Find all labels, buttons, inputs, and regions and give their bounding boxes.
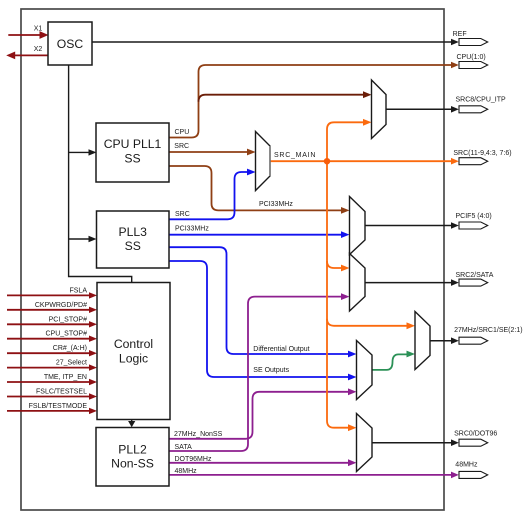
svg-text:SRC: SRC bbox=[174, 143, 189, 150]
wire SRC brown to mux U1 bbox=[169, 149, 256, 156]
block OSC bbox=[48, 22, 92, 65]
label SE Outputs bbox=[253, 367, 289, 374]
svg-text:SE Outputs: SE Outputs bbox=[253, 367, 289, 374]
label PCI33MHz blue bbox=[175, 226, 209, 233]
svg-text:TME, ITP_EN: TME, ITP_EN bbox=[44, 374, 87, 381]
wire SATA purple to mux U4 bbox=[169, 293, 350, 451]
svg-text:CPU_STOP#: CPU_STOP# bbox=[46, 331, 88, 338]
input CPU_STOP# bbox=[7, 331, 97, 342]
svg-text:CPU PLL1: CPU PLL1 bbox=[104, 137, 162, 151]
svg-text:PCI33MHz: PCI33MHz bbox=[175, 226, 209, 233]
svg-text:PLL2: PLL2 bbox=[118, 442, 147, 456]
label 48MHz (PLL2) bbox=[175, 468, 198, 475]
block CPU PLL1 SS bbox=[96, 123, 169, 182]
svg-text:27_Select: 27_Select bbox=[56, 360, 87, 367]
input 27_Select bbox=[7, 360, 97, 371]
wire Control Logic to PLL2 bbox=[128, 420, 135, 428]
label Differential Output bbox=[253, 346, 309, 353]
label SRC (PLL3) bbox=[175, 211, 190, 218]
block PLL3 SS bbox=[97, 211, 170, 268]
svg-text:SRC_MAIN: SRC_MAIN bbox=[274, 152, 316, 159]
wire orange trunk to mux U2 bbox=[327, 119, 372, 161]
wire SRC_MAIN orange output bbox=[270, 160, 452, 162]
wire orange branch to mux U4 bbox=[327, 261, 350, 271]
wire mux U3 output PCIF5 bbox=[365, 225, 452, 227]
input X2 bbox=[6, 46, 48, 59]
wire CPU branch to mux U2 bbox=[199, 91, 372, 101]
svg-text:CR#_(A:H): CR#_(A:H) bbox=[53, 345, 87, 352]
svg-text:REF: REF bbox=[453, 31, 467, 38]
svg-text:SRC: SRC bbox=[175, 211, 190, 218]
label SRC_MAIN bbox=[274, 152, 316, 159]
label SATA bbox=[175, 444, 193, 451]
label CPU bbox=[175, 129, 190, 136]
wire PCI33MHz brown to mux U3 bbox=[169, 166, 350, 214]
wire 48MHz purple bbox=[169, 474, 452, 476]
svg-text:SS: SS bbox=[125, 239, 141, 253]
svg-text:SRC2/SATA: SRC2/SATA bbox=[456, 272, 494, 279]
svg-text:SATA: SATA bbox=[175, 444, 193, 451]
output SRC0/DOT96 bbox=[451, 431, 497, 447]
svg-text:FSLB/TESTMODE: FSLB/TESTMODE bbox=[29, 403, 88, 410]
svg-text:Control: Control bbox=[114, 337, 153, 351]
output SRC8/CPU_ITP bbox=[451, 97, 506, 113]
output CPU(1:0) bbox=[451, 54, 488, 68]
wire CPU net brown bbox=[169, 65, 452, 138]
output SRC(11-9,4:3, 7:6) bbox=[451, 150, 512, 165]
chip boundary bbox=[21, 9, 444, 510]
svg-text:DOT96MHz: DOT96MHz bbox=[175, 456, 212, 463]
svg-text:X1: X1 bbox=[34, 25, 43, 32]
wire SRC blue PLL3 to mux U1 bbox=[169, 169, 256, 220]
svg-text:OSC: OSC bbox=[57, 37, 84, 51]
label DOT96MHz bbox=[175, 456, 212, 463]
output 27MHz/SRC1/SE(2:1) bbox=[451, 327, 523, 344]
svg-text:CKPWRGD/PD#: CKPWRGD/PD# bbox=[35, 302, 87, 309]
svg-text:27MHz/SRC1/SE(2:1): 27MHz/SRC1/SE(2:1) bbox=[454, 327, 522, 334]
wire OSC feed trunk bbox=[69, 65, 132, 283]
mux U7 bbox=[357, 414, 373, 472]
input TME, ITP_EN bbox=[7, 374, 97, 385]
svg-text:48MHz: 48MHz bbox=[455, 462, 478, 469]
svg-text:SRC0/DOT96: SRC0/DOT96 bbox=[454, 431, 497, 438]
svg-text:FSLA: FSLA bbox=[69, 287, 87, 294]
svg-text:Non-SS: Non-SS bbox=[111, 456, 154, 470]
input CR#_(A:H) bbox=[7, 345, 97, 356]
wire 27MHz_NonSS purple to mux U6 bbox=[169, 388, 357, 438]
block PLL2 Non-SS bbox=[96, 428, 169, 487]
svg-text:Differential Output: Differential Output bbox=[253, 346, 309, 353]
mux U3 bbox=[350, 197, 366, 255]
wire DOT96MHz purple to mux U7 bbox=[169, 459, 357, 466]
mux U5 bbox=[415, 312, 430, 370]
mux U4 bbox=[350, 254, 366, 312]
input FSLC/TESTSEL bbox=[7, 389, 97, 400]
svg-text:SRC8/CPU_ITP: SRC8/CPU_ITP bbox=[456, 97, 507, 104]
svg-text:FSLC/TESTSEL: FSLC/TESTSEL bbox=[36, 389, 87, 396]
mux U2 bbox=[372, 80, 387, 139]
label 27MHz_NonSS bbox=[174, 431, 223, 438]
svg-text:SRC(11-9,4:3, 7:6): SRC(11-9,4:3, 7:6) bbox=[453, 150, 511, 157]
wire mux U2 output SRC8/CPU_ITP bbox=[386, 108, 452, 110]
svg-text:SS: SS bbox=[124, 152, 140, 166]
wire Differential Output blue to mux U6 bbox=[169, 247, 357, 357]
output PCIF5 (4:0) bbox=[451, 213, 492, 229]
junction orange SRC_MAIN bbox=[324, 158, 330, 164]
svg-text:PCIF5 (4:0): PCIF5 (4:0) bbox=[456, 213, 492, 220]
output 48MHz bbox=[451, 462, 488, 479]
wire OSC to PLL3 bbox=[69, 236, 97, 242]
input X1 bbox=[8, 25, 48, 39]
wire orange trunk down bbox=[327, 161, 357, 431]
wire green mux U6 to mux U5 bbox=[372, 351, 415, 370]
wire PCI33MHz blue to mux U3 bbox=[169, 231, 350, 238]
input FSLA bbox=[7, 287, 97, 298]
mux U6 bbox=[357, 341, 373, 400]
svg-text:Logic: Logic bbox=[119, 351, 148, 365]
block Control Logic bbox=[97, 283, 170, 420]
label SRC (CPU PLL1) bbox=[174, 143, 189, 150]
wire REF bbox=[92, 41, 452, 43]
input CKPWRGD/PD# bbox=[7, 302, 97, 313]
svg-text:CPU(1:0): CPU(1:0) bbox=[457, 54, 486, 61]
output SRC2/SATA bbox=[451, 272, 494, 286]
svg-text:PCI_STOP#: PCI_STOP# bbox=[49, 316, 87, 323]
label PCI33MHz brown bbox=[259, 201, 293, 208]
wire OSC to CPU PLL1 bbox=[69, 149, 97, 155]
mux U1 SRC_MAIN bbox=[256, 132, 271, 191]
wire orange branch to mux U5 bbox=[327, 319, 415, 329]
wire mux U5 output 27MHz/SRC1 bbox=[430, 340, 452, 342]
svg-text:CPU: CPU bbox=[175, 129, 190, 136]
output REF bbox=[451, 31, 488, 46]
svg-text:27MHz_NonSS: 27MHz_NonSS bbox=[174, 431, 223, 438]
svg-text:PLL3: PLL3 bbox=[118, 225, 147, 239]
wire mux U4 output SRC2/SATA bbox=[365, 282, 452, 284]
svg-text:PCI33MHz: PCI33MHz bbox=[259, 201, 293, 208]
wire mux U7 output SRC0/DOT96 bbox=[372, 442, 452, 444]
wire SE Outputs blue to mux U6 bbox=[169, 261, 357, 380]
input FSLB/TESTMODE bbox=[7, 403, 97, 414]
svg-text:48MHz: 48MHz bbox=[175, 468, 198, 475]
svg-text:X2: X2 bbox=[34, 46, 43, 53]
input PCI_STOP# bbox=[7, 316, 97, 327]
